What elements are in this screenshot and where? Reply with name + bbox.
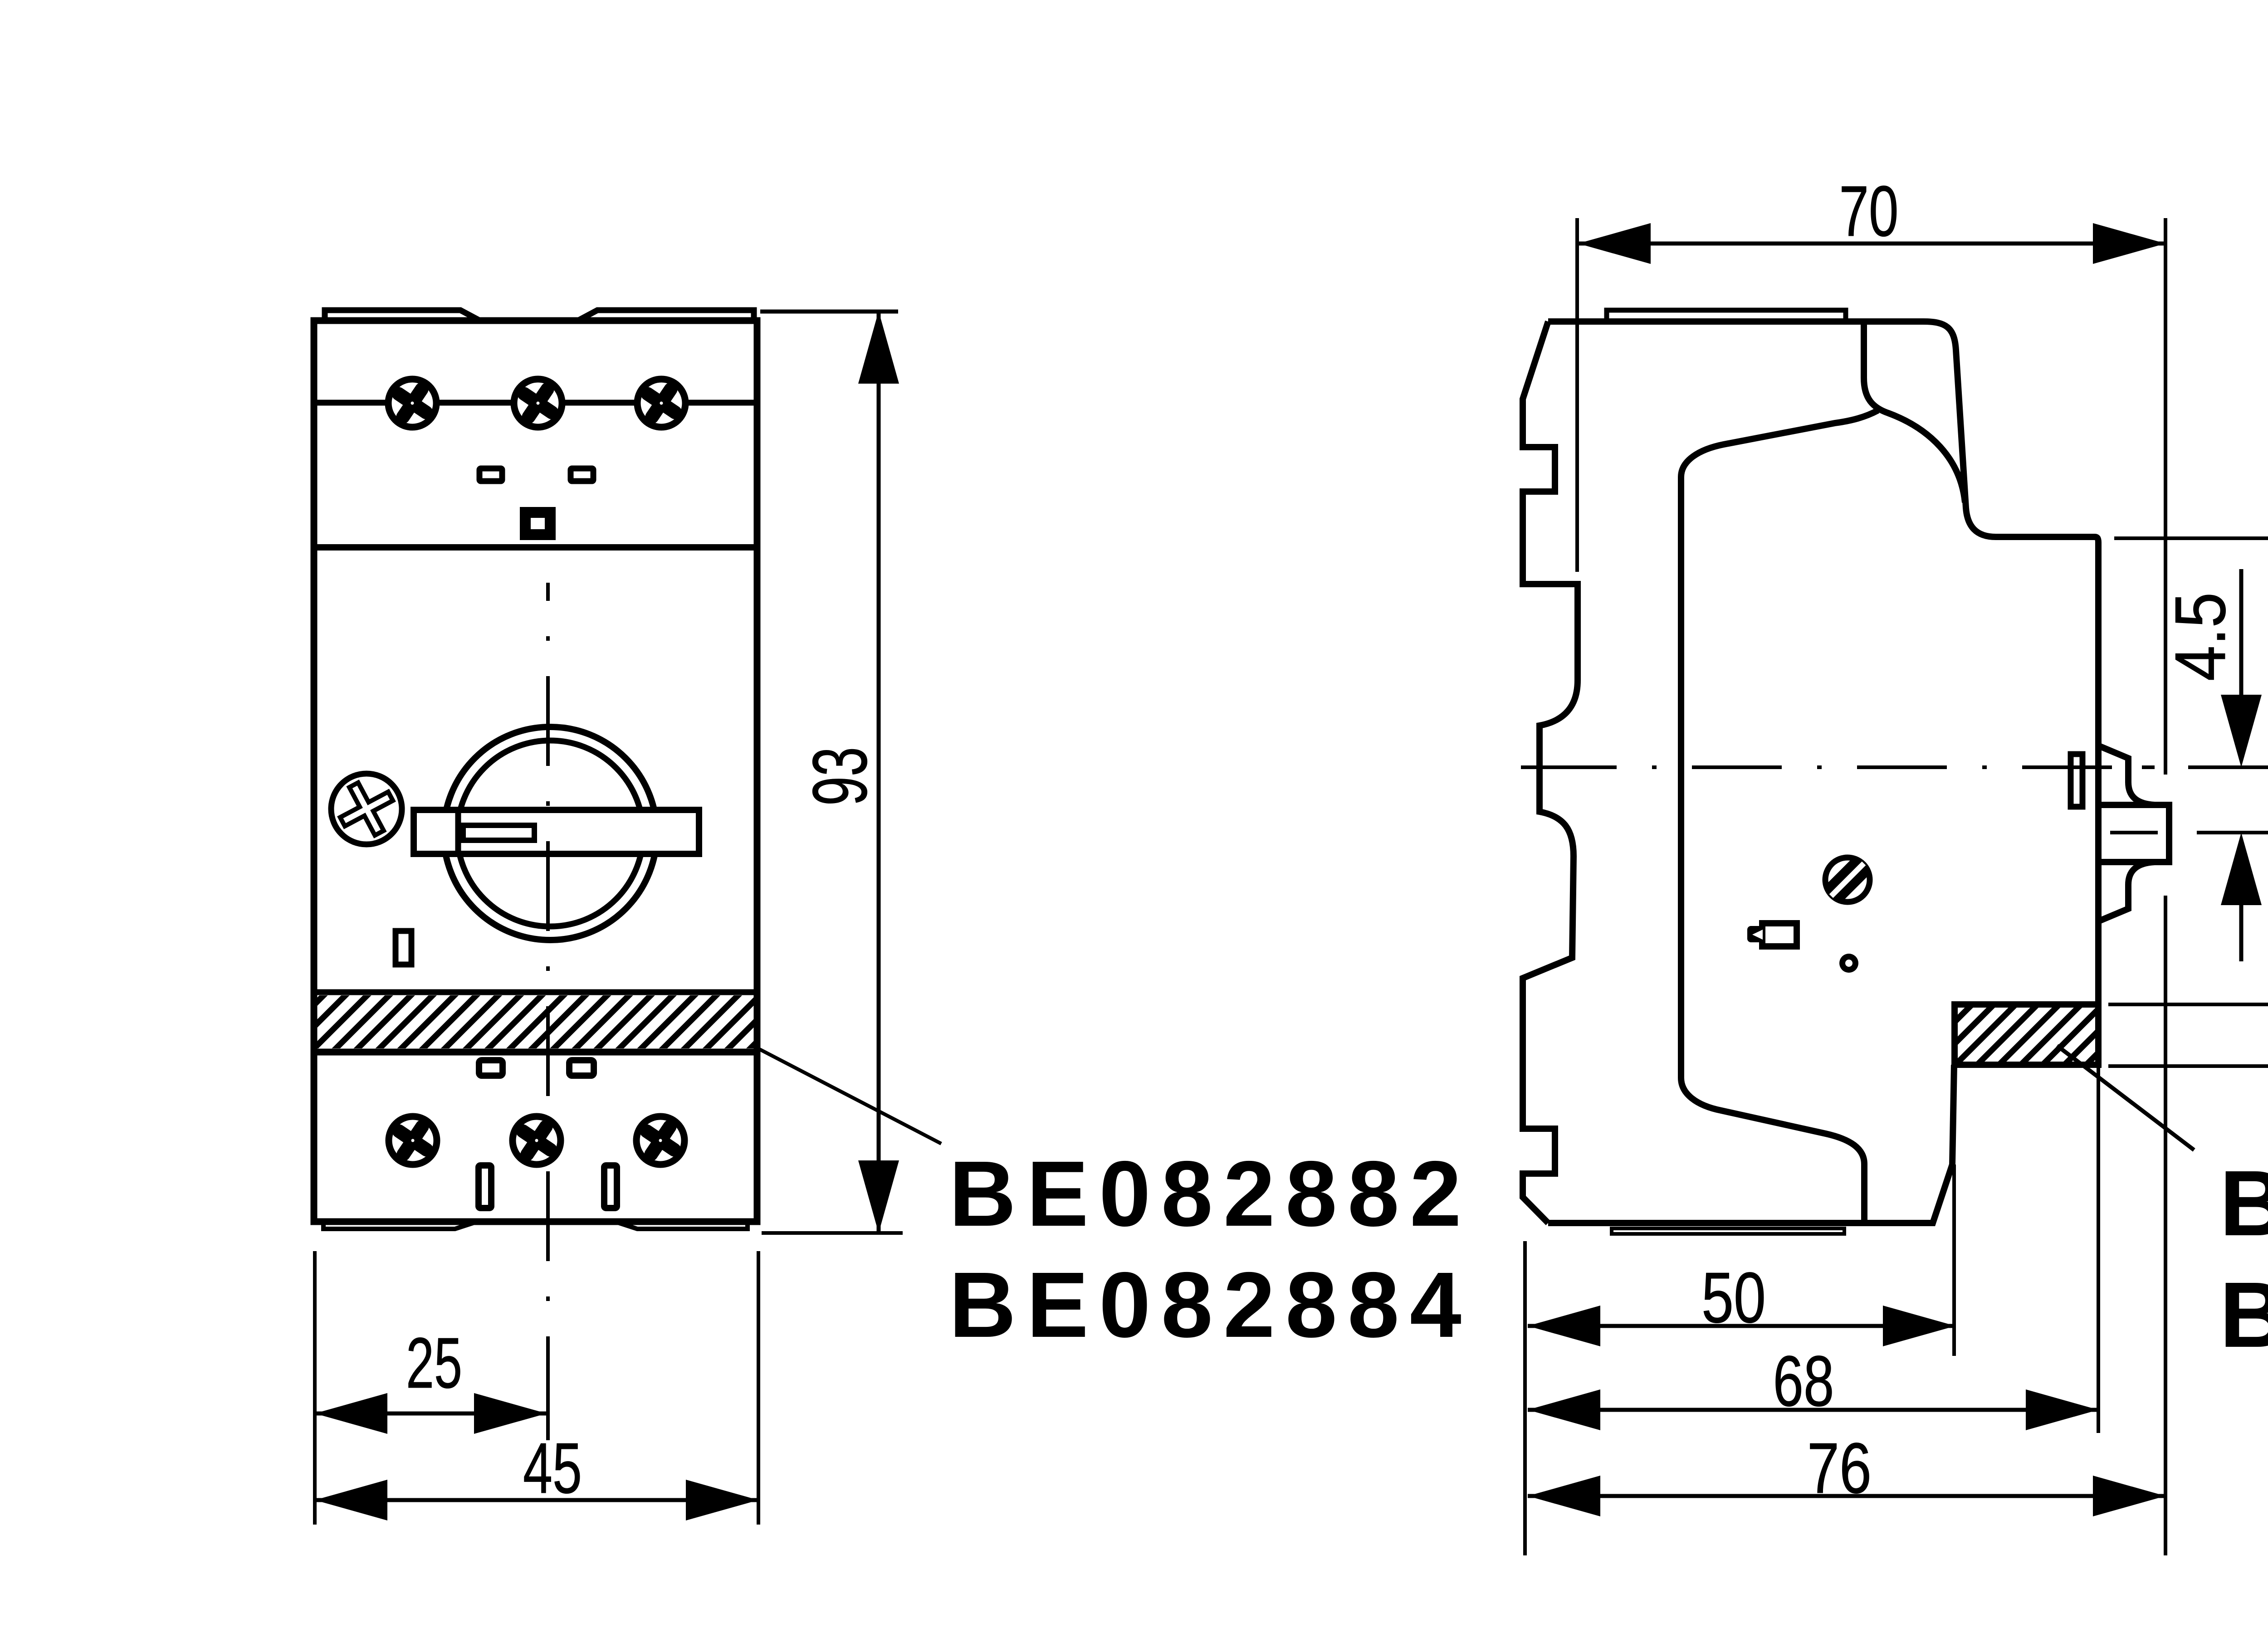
terminal slot right — [571, 468, 593, 481]
svg-text:BE082884: BE082884 — [949, 1253, 1472, 1357]
dim 55 bottom tick (side) — [2108, 1064, 2268, 1068]
side reset flag — [1747, 923, 1797, 946]
svg-text:45: 45 — [523, 1428, 582, 1508]
side top mounting tab — [1607, 310, 1846, 322]
dim 70 left extension — [1575, 218, 1579, 572]
handle slot — [463, 825, 534, 840]
hatch band top line — [314, 989, 757, 995]
side centre line — [1521, 765, 2155, 769]
screw T1 — [388, 379, 436, 427]
dim 45 right extension — [757, 1251, 760, 1525]
dim 70 line — [1578, 242, 2165, 246]
dim 70/76 right extension lower — [2164, 896, 2167, 1555]
side flange hatch block — [1955, 1004, 2098, 1065]
bottom tiny slot left — [479, 1165, 491, 1208]
front top-left mounting tab — [325, 310, 480, 321]
panel split line — [314, 544, 758, 551]
dim 45/55 top tick (side) — [2114, 536, 2268, 540]
front centre line — [546, 583, 550, 1440]
front top-right mounting tab — [578, 310, 754, 321]
dim 4.5 tick lower left — [2110, 831, 2158, 834]
svg-text:BE082882: BE082882 — [949, 1142, 1472, 1246]
dim 45 line (front) — [315, 1498, 758, 1502]
dim 4.5 upper line — [2239, 569, 2244, 707]
dim 4.5 tick upper — [2188, 765, 2268, 769]
side small donut — [1839, 954, 1858, 973]
terminal row line top — [314, 400, 757, 406]
side outer back profile — [1523, 322, 1578, 1223]
handle divider — [455, 807, 461, 857]
dim 93 top tick — [760, 310, 898, 314]
knob inner circle — [457, 741, 643, 926]
dim 25/45 left extension — [313, 1251, 317, 1525]
screw T2 — [514, 379, 562, 427]
screw B3 — [636, 1116, 684, 1165]
screw B1 — [389, 1116, 437, 1165]
svg-text:25: 25 — [406, 1323, 462, 1403]
dim 45 arrows (front) — [315, 1480, 758, 1520]
dim 93 line — [877, 311, 881, 1233]
dim 50 line — [1528, 1324, 1955, 1328]
dim 76 line — [1528, 1494, 2165, 1498]
front bottom-left mounting tab — [323, 1223, 474, 1229]
dim 50 right extension — [1952, 1165, 1956, 1356]
svg-text:68: 68 — [1773, 1341, 1834, 1421]
svg-text:BE082882: BE082882 — [2219, 1151, 2268, 1255]
svg-text:50: 50 — [1701, 1258, 1766, 1338]
dim 50/68/76 left extension — [1523, 1241, 1527, 1555]
hatch band fill — [314, 995, 757, 1048]
dim 25 arrows — [315, 1393, 547, 1434]
lower slot right — [569, 1060, 594, 1076]
svg-text:76: 76 — [1807, 1428, 1872, 1508]
side bottom edge — [1548, 1065, 1954, 1223]
svg-text:70: 70 — [1839, 171, 1899, 251]
dim 45 bottom tick (side) — [2108, 1003, 2268, 1006]
dim 50 arrows — [1528, 1306, 1955, 1346]
knob handle bar — [414, 810, 699, 854]
indicator window — [396, 931, 411, 965]
dim 68 line — [1528, 1408, 2098, 1412]
bottom tiny slot right — [604, 1165, 617, 1208]
dim 4.5 tick lower right — [2197, 831, 2268, 834]
lower slot left — [479, 1060, 503, 1076]
DIN rail slot — [2071, 754, 2082, 807]
terminal slot left — [479, 468, 502, 481]
front bottom-right mounting tab — [618, 1223, 748, 1229]
leader line to right label — [2057, 1046, 2194, 1150]
DIN latch lower hook — [2100, 862, 2155, 921]
hatch band bottom line — [314, 1049, 757, 1056]
square window — [525, 512, 550, 535]
DIN latch tab — [2102, 805, 2169, 862]
leader line to left label — [758, 1048, 941, 1144]
side bottom mounting tab — [1612, 1228, 1844, 1234]
side slotted screw — [1823, 855, 1872, 905]
knob outer circle — [444, 727, 657, 940]
svg-text:93: 93 — [797, 747, 883, 806]
dim 25 line — [315, 1412, 547, 1416]
screw T3 — [637, 379, 685, 427]
dim 93 arrows — [858, 311, 899, 1233]
side top edge — [1548, 322, 2098, 1004]
dim 4.5 arrows — [2221, 695, 2262, 905]
dim 93 bottom tick — [762, 1231, 903, 1235]
svg-text:BE082884: BE082884 — [2219, 1263, 2268, 1367]
dim 68 arrows — [1528, 1389, 2098, 1430]
dim 70/76 right extension upper — [2164, 218, 2167, 775]
svg-text:4.5: 4.5 — [2160, 592, 2240, 681]
DIN latch upper hook — [2100, 746, 2155, 805]
front body outline — [314, 321, 757, 1222]
dim 68 right extension — [2097, 1068, 2100, 1433]
dim 4.5 lower line — [2239, 892, 2244, 961]
phillips screw left of knob — [330, 772, 403, 846]
side inner slant to back — [1681, 410, 1878, 1220]
dim 76 arrows — [1528, 1476, 2165, 1516]
side inner front contour upper — [1864, 322, 1965, 502]
screw B2 — [513, 1116, 561, 1165]
dim 70 arrows — [1578, 223, 2165, 264]
